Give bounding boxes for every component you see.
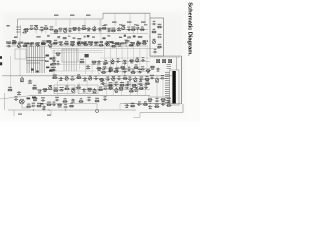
capacitor C62 [155, 100, 159, 103]
resistor R37 [99, 78, 104, 80]
capacitor C77 [108, 70, 112, 73]
capacitor C52 [59, 89, 63, 92]
capacitor C1 [22, 31, 26, 34]
capacitor C73 [101, 82, 105, 85]
node junction N13 [126, 45, 127, 46]
capacitor C2 [29, 27, 33, 30]
value label of C19 [89, 42, 92, 43]
value label of Q21 [93, 93, 97, 94]
resistor R9 [140, 29, 145, 31]
value label of C34 [103, 64, 106, 65]
transistor Q7 [78, 41, 81, 46]
transistor Q9 [136, 41, 139, 46]
node junction N2 [55, 29, 56, 30]
value label of R5 [82, 25, 86, 26]
value label VL30 [70, 15, 75, 16]
capacitor C60 [87, 99, 91, 102]
capacitor C53 [82, 88, 86, 91]
resistor R20 [157, 26, 162, 28]
capacitor C55 [125, 87, 129, 90]
node junction N5 [88, 29, 89, 30]
coil L1 (ladder rungs) [16, 27, 21, 32]
node junction N3 [74, 29, 75, 30]
capacitor C37 [140, 68, 144, 71]
value label of C40 [59, 80, 62, 81]
value label of C69 [125, 107, 128, 108]
resistor R38 [123, 78, 128, 80]
transistor Q19 [49, 85, 52, 90]
node junction N41 [103, 84, 104, 85]
value label of Q23 [135, 87, 138, 88]
wire border drop 4 [99, 19, 101, 26]
resistor R55 [94, 100, 99, 102]
value label of R18 [130, 42, 133, 43]
wire mesh horizontals [52, 53, 150, 87]
value label of C61 [104, 96, 107, 97]
svg-text:Schematic Diagram.: Schematic Diagram. [187, 2, 193, 56]
capacitor C42 [83, 77, 87, 80]
value label of R62 [70, 103, 73, 104]
value label of Q14 [65, 75, 68, 76]
value label of C76 [139, 81, 142, 82]
value label of R37 [100, 81, 103, 82]
node junction J1 [96, 110, 99, 113]
wire border drop 1 [55, 19, 57, 26]
value label of C45 [118, 76, 121, 77]
value label of Q4 [121, 25, 125, 26]
wire top border step [102, 13, 104, 19]
node junction N10 [128, 29, 129, 30]
resistor R39 [144, 78, 149, 80]
value label of C28 [57, 61, 59, 62]
value label of R74 [147, 72, 150, 73]
value label of R24 [53, 61, 56, 62]
wire bus B3 [2, 75, 172, 77]
resistor R52 [32, 98, 37, 100]
capacitor C59 [71, 99, 75, 102]
IF module box U1 [150, 18, 164, 56]
capacitor C9 [98, 27, 102, 30]
value label of C16 [36, 42, 40, 43]
value label of C62 [156, 98, 159, 99]
value label of R36 [77, 74, 80, 75]
wire row bus y=68.5 [96, 68, 150, 70]
wire bus B2b [52, 50, 103, 52]
value label of C49 [161, 75, 164, 76]
value label of C48 [150, 75, 154, 76]
capacitor C38 [156, 68, 160, 71]
wire bus B2 [50, 48, 160, 50]
capacitor C78 [122, 71, 126, 74]
value label of R43 [54, 88, 58, 89]
resistor R7 [111, 30, 116, 32]
resistor R70 [145, 83, 150, 85]
wire riser up x=162 [161, 76, 163, 78]
wire speaker link [22, 107, 30, 109]
value label of C65 [42, 109, 45, 110]
wire vertical V4 [100, 19, 102, 46]
value label of Q8 [106, 41, 110, 42]
wire bus B5 [30, 95, 150, 97]
resistor R28 [129, 60, 134, 62]
transistor Q2 [64, 28, 67, 33]
capacitor C7 [77, 27, 81, 30]
value label of R10 [12, 40, 16, 41]
wire riser up x=113 [112, 76, 114, 79]
node junction N30 [73, 89, 74, 90]
value label of R7 [111, 28, 115, 29]
node junction N26 [101, 78, 102, 79]
capacitor C54 [103, 87, 107, 90]
resistor R44 [64, 88, 69, 90]
value label of C53 [83, 91, 86, 92]
value label of R73 [132, 69, 135, 70]
wire top border right [103, 12, 150, 14]
capacitor C47 [139, 78, 143, 81]
resistor R64 [143, 104, 148, 106]
node junction N39 [132, 103, 133, 104]
wire bus link drop [119, 104, 121, 111]
value label of C72 [162, 101, 165, 102]
value label of R17 [112, 43, 116, 44]
node junction N21 [104, 68, 105, 69]
value label VL33 [127, 22, 132, 23]
value label of Q10 [153, 39, 156, 40]
resistor R42 [43, 89, 48, 91]
value label of C17 [60, 41, 63, 42]
value label VL178 [18, 114, 22, 115]
node junction N16 [112, 61, 113, 62]
value label VL32 [112, 22, 117, 23]
capacitor C3 [40, 29, 44, 32]
capacitor C16 [36, 44, 40, 47]
node junction N8 [108, 29, 109, 30]
value label of R1 [25, 31, 28, 32]
wire riser up x=141 [140, 76, 142, 80]
wire row bus y=84.5 [100, 84, 150, 86]
node junction N40 [150, 103, 151, 104]
value label of R8 [131, 27, 135, 28]
transistor Q3 [93, 26, 96, 31]
node junction N44 [139, 71, 140, 72]
node junction N42 [109, 71, 110, 72]
amplifier block box U3 [78, 85, 98, 94]
value label of R19 [143, 40, 146, 41]
resistor R13 [53, 42, 58, 44]
resistor R24 [51, 63, 56, 65]
node junction N7 [99, 29, 100, 30]
wire row1 lower bus [50, 33, 148, 35]
value label of R66 [167, 102, 170, 103]
component column blobs [31, 55, 53, 73]
value label of R13 [54, 40, 57, 41]
value label of R70 [146, 81, 149, 82]
capacitor C49 [160, 77, 164, 80]
node junction N23 [136, 68, 137, 69]
capacitor C40 [59, 77, 63, 80]
switch block box S2 [62, 49, 78, 62]
resistor R34 [49, 69, 54, 71]
capacitor C44 [106, 78, 110, 81]
value label of R65 [155, 104, 159, 105]
value label of C7 [78, 30, 81, 31]
capacitor C76 [138, 83, 142, 86]
value label of R15 [84, 41, 87, 42]
resistor R18 [129, 44, 134, 46]
value label VL35 [104, 24, 107, 25]
value label of C38 [157, 71, 160, 72]
capacitor C15 [29, 43, 33, 46]
wire border drop 2 [69, 19, 71, 26]
capacitor C27 [52, 69, 56, 72]
value label of C30 [97, 63, 101, 64]
wire riser down x=60 [59, 29, 61, 34]
wire border drop 6 [129, 13, 131, 26]
transistor Q22 [115, 87, 118, 92]
resistor R36 [76, 77, 81, 79]
wire riser up x=85 [84, 76, 86, 79]
value label of R4 [73, 30, 76, 31]
capacitor C24 [157, 36, 161, 39]
transistor Q8 [106, 41, 109, 46]
transistor Q6 [49, 42, 52, 47]
capacitor C26 [52, 57, 56, 60]
ribbon cable bus (vertical wires) [26, 46, 46, 73]
capacitor C74 [114, 84, 118, 87]
value label of R55 [95, 98, 99, 99]
value label of C33 [142, 57, 145, 58]
resistor R10 [11, 42, 16, 44]
wire row bus y=46 [6, 45, 148, 47]
value label of C23 [153, 21, 156, 22]
capacitor C6 [68, 30, 72, 33]
capacitor C70 [137, 103, 141, 106]
value label of R42 [44, 91, 47, 92]
capacitor C69 [125, 104, 129, 107]
wire riser up x=157 [156, 76, 158, 80]
transistor Q4 [122, 25, 125, 30]
wire bottom bus right part [75, 109, 136, 111]
capacitor C36 [127, 69, 131, 72]
value label of C31 [117, 58, 120, 59]
resistor R58 [26, 106, 31, 108]
value label of R52 [33, 100, 37, 101]
value label of C4 [50, 26, 54, 27]
value label of C55 [125, 85, 129, 86]
value label of R57 [162, 101, 165, 102]
value label of R2 [45, 25, 48, 26]
resistor R15 [83, 44, 88, 46]
resistor R71 [101, 72, 106, 74]
value label of R9 [141, 27, 144, 28]
value label of R41 [33, 85, 36, 86]
capacitor C8 [87, 27, 91, 30]
node junction N29 [61, 89, 62, 90]
wire right border top link [164, 55, 182, 57]
resistor R68 [119, 84, 124, 86]
wire riser down x=138 [137, 28, 139, 34]
node junction N14 [131, 45, 132, 46]
value label of R25 [80, 59, 84, 60]
wire bus B6 [148, 96, 170, 98]
resistor R56 [147, 99, 152, 101]
value label of C52 [60, 87, 64, 88]
node junction N45 [148, 71, 149, 72]
wire riser up x=135 [134, 76, 136, 80]
value label of C50 [17, 94, 21, 95]
capacitor C19 [89, 43, 93, 46]
wire riser down x=100 [99, 29, 101, 34]
capacitor C50 [17, 91, 21, 94]
value label of R71 [102, 69, 105, 70]
resistor R27 [103, 62, 108, 64]
value label of C6 [69, 28, 72, 29]
value label of C42 [83, 80, 86, 81]
resistor R3 [53, 30, 58, 32]
capacitor C4 [49, 28, 53, 31]
value label of C58 [55, 97, 59, 98]
resistor R29 [96, 67, 101, 69]
value label of C10 [107, 28, 110, 29]
value label of R69 [132, 87, 136, 88]
node junction N24 [78, 78, 79, 79]
wire left vertical V1 [10, 56, 12, 90]
capacitor C10 [107, 30, 111, 33]
resistor R49 [119, 87, 124, 89]
node junction N28 [45, 89, 46, 90]
value label of R34 [51, 67, 54, 68]
capacitor C46 [128, 78, 132, 81]
value label of R63 [131, 103, 135, 104]
switch block wires [64, 49, 77, 71]
capacitor C63 [167, 100, 171, 103]
wire riser down x=46 [45, 29, 47, 34]
label dark blob electrolytic [85, 54, 89, 57]
value label VL36 [119, 24, 122, 25]
value label of R68 [120, 82, 124, 83]
wire speaker drop [21, 104, 23, 108]
value label VL29 [54, 15, 59, 16]
value label of R40 [8, 87, 12, 88]
node junction N6 [94, 29, 95, 30]
wire mesh verticals [58, 45, 147, 96]
resistor R65 [154, 106, 159, 108]
value label of C29 [86, 68, 90, 69]
value label of C67 [64, 104, 67, 105]
resistor R41 [32, 87, 37, 89]
value label of C44 [106, 77, 109, 78]
value label of C70 [138, 101, 141, 102]
resistor R35 [52, 77, 57, 79]
capacitor C75 [126, 83, 130, 86]
value label of C57 [41, 97, 45, 98]
value label of C24 [158, 34, 162, 35]
wire left vertical V2 [19, 37, 21, 76]
value label of C73 [102, 80, 105, 81]
value label of C5 [59, 30, 62, 31]
value label VL38 [144, 24, 147, 25]
capacitor C67 [63, 106, 67, 109]
resistor R60 [46, 104, 51, 106]
capacitor C61 [103, 98, 107, 101]
node junction N27 [113, 78, 114, 79]
capacitor C68 [14, 98, 18, 101]
wire bottom stub [139, 113, 141, 118]
resistor R48 [108, 87, 113, 89]
resistor R66 [166, 105, 171, 107]
value label VL34 [141, 22, 146, 23]
wire riser down x=125 [124, 63, 126, 76]
resistor R6 [102, 27, 107, 29]
value label of R60 [47, 102, 51, 103]
capacitor C18 [64, 43, 68, 46]
resistor R57 [160, 99, 165, 101]
wire riser down x=42 [41, 30, 43, 34]
value label of Q1 [34, 25, 38, 26]
wire left border bottom [4, 93, 6, 110]
value label of C37 [141, 66, 144, 67]
value label of R26 [93, 64, 96, 65]
capacitor C65 [42, 106, 46, 109]
value label of R56 [148, 101, 151, 102]
value label of C9 [99, 30, 102, 31]
wire diagonal lead [0, 96, 30, 99]
capacitor C64 [31, 105, 35, 108]
capacitor C20 [94, 42, 98, 45]
value label of R33 [151, 69, 154, 70]
value label of R48 [109, 85, 112, 86]
resistor R17 [111, 45, 116, 47]
wire top right corner drop [149, 13, 151, 18]
resistor R4 [72, 27, 77, 29]
transistor Q21 [93, 88, 96, 93]
value label of R35 [53, 74, 57, 75]
value label of Q16 [112, 76, 115, 77]
wire row bus y=103.5 [124, 103, 172, 105]
wire junction drop [96, 104, 98, 110]
resistor R73 [131, 72, 136, 74]
value label of C21 [118, 46, 122, 47]
value label of R16 [100, 42, 103, 43]
node junction N1 [31, 29, 32, 30]
wire riser down x=36 [35, 28, 37, 33]
node junction N22 [122, 68, 123, 69]
node junction N37 [48, 109, 49, 110]
value label of C71 [149, 108, 152, 109]
wire right border [181, 56, 183, 104]
wire border drop 5 [114, 13, 116, 26]
wire row bus y=71.5 [100, 71, 150, 73]
capacitor C48 [150, 77, 154, 80]
value label of R44 [66, 86, 69, 87]
transistor Q23 [135, 87, 138, 92]
value label of C13 [136, 25, 139, 26]
capacitor C12 [127, 29, 131, 32]
value label of R51 [140, 85, 143, 86]
transistor Q20 [72, 88, 75, 93]
capacitor C25 [153, 51, 157, 54]
wire border drop 3 [84, 19, 86, 26]
capacitor C35 [115, 67, 119, 70]
wire row bus y=78.5 [52, 78, 168, 80]
value label of C25 [154, 49, 157, 50]
value label of R14 [71, 41, 75, 42]
value label of R47 [99, 87, 102, 88]
value label of C64 [32, 103, 35, 104]
node junction N20 [98, 68, 99, 69]
capacitor C13 [135, 27, 139, 30]
value label of R29 [97, 70, 100, 71]
